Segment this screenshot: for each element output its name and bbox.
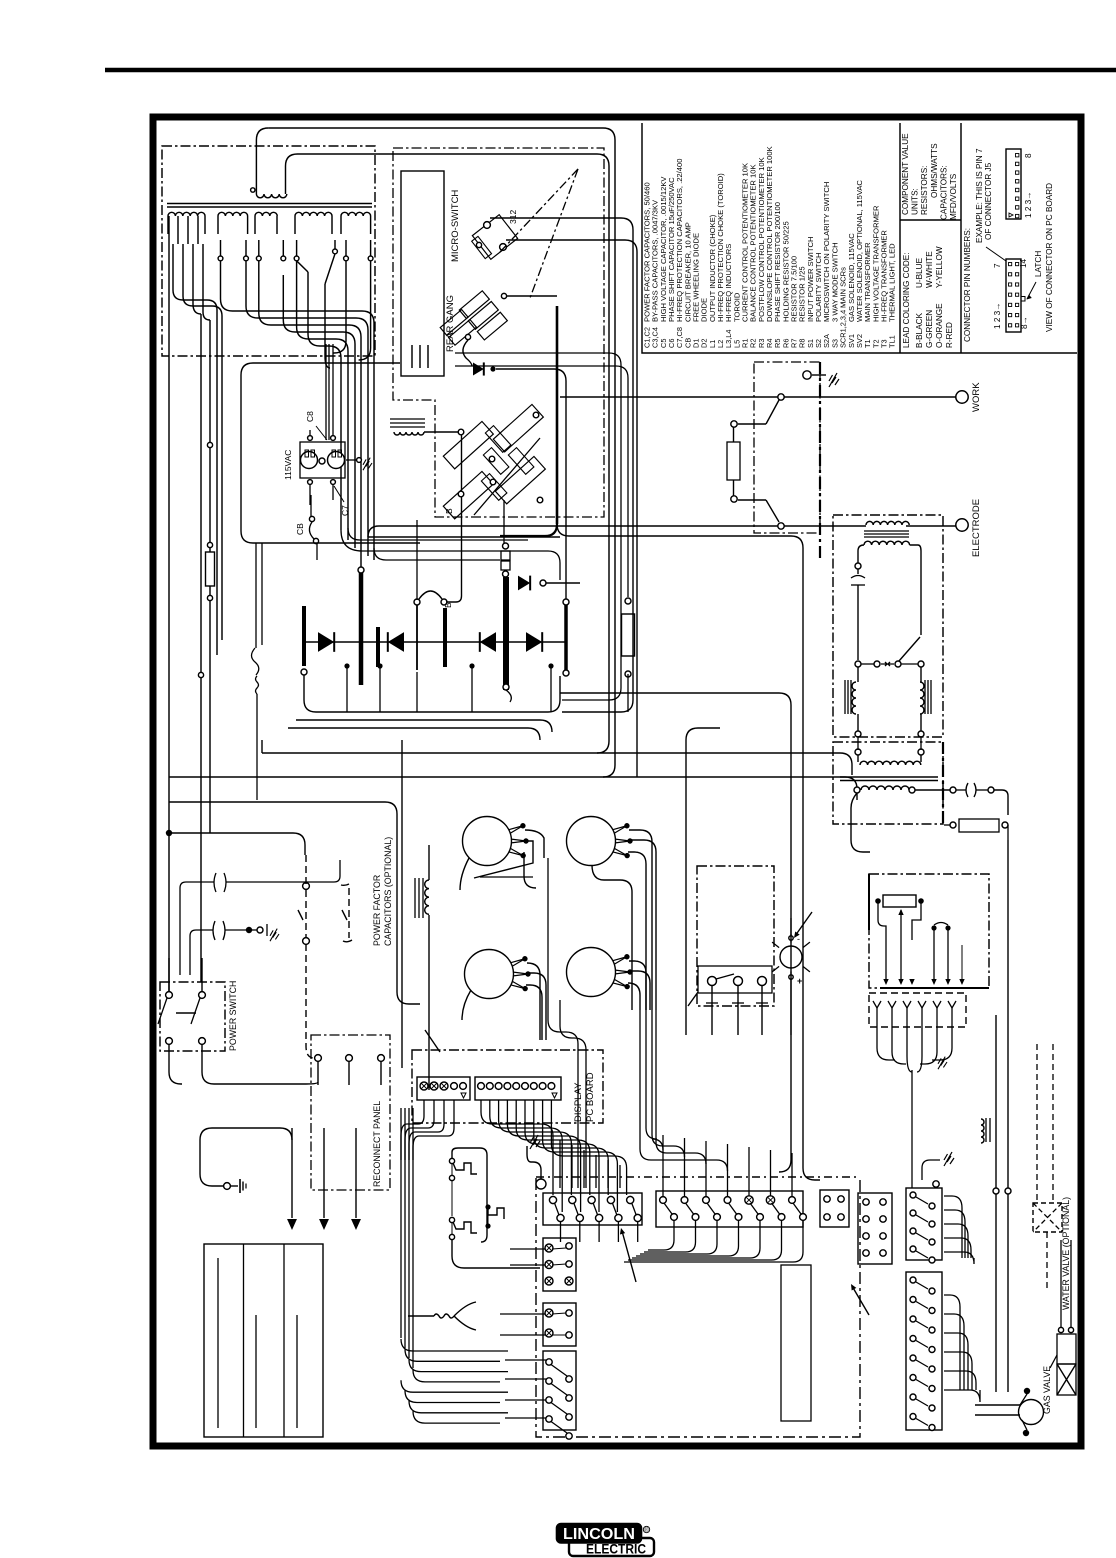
control strip dash-dot box: [697, 866, 774, 1006]
rear gang body inner ticks: [411, 345, 413, 368]
display strip2 wires down to strip A: [481, 1100, 553, 1195]
water valve coil: [985, 1118, 987, 1142]
display strip 2: [475, 1077, 561, 1100]
svg-text:UNITS:: UNITS:: [911, 188, 920, 215]
legend box outline: [642, 123, 1077, 353]
free wheeling diode D1: [503, 580, 508, 585]
arrow to TL1: [795, 912, 812, 936]
svg-text:115VAC: 115VAC: [283, 450, 293, 480]
junction dot main feed: [166, 830, 172, 836]
terminal strip F tall: [906, 1272, 942, 1430]
polarity switch dash-dot box: [754, 362, 820, 533]
display strip 1: [417, 1077, 470, 1100]
wire left edge vertical to power area: [168, 216, 170, 995]
svg-text:CAPACITORS (OPTIONAL): CAPACITORS (OPTIONAL): [383, 837, 393, 946]
capacitor plate 5: [443, 608, 447, 667]
main transformer T1 enclosure dash-dot box: [162, 146, 375, 356]
Lincoln Electric logo white electric box: [569, 1538, 654, 1556]
twisted pair harness: [408, 1315, 434, 1317]
svg-text:14: 14: [1019, 258, 1028, 268]
T3 primary winding: [857, 755, 859, 762]
resistor R7: [206, 552, 215, 586]
thermostat switch symbols: [449, 1158, 454, 1163]
strip A bottom stubs: [560, 1222, 562, 1242]
arrow to strip B: [852, 1286, 869, 1315]
svg-text:O-ORANGE: O-ORANGE: [935, 303, 944, 348]
wire from power switch down-right: [202, 1072, 318, 1084]
svg-text:LATCH: LATCH: [1034, 251, 1043, 277]
receptacle ground symbol: [357, 458, 362, 463]
svg-text:WORK: WORK: [971, 382, 982, 412]
toroid L2 winding bottom: [864, 541, 910, 545]
svg-text:W-WHITE: W-WHITE: [925, 251, 934, 288]
svg-text:8: 8: [1024, 153, 1033, 158]
feeder bundle verticals from micro-switch area: [416, 520, 418, 600]
terminal strip C: [820, 1190, 849, 1227]
gang switch cluster tilted contact rects: [443, 421, 493, 468]
SCR1 main thyristor: [463, 817, 512, 866]
svg-text:+: +: [797, 976, 802, 986]
wire from cluster to T3 via right: [557, 524, 820, 1180]
T3 primary terminals: [855, 749, 861, 755]
diode SCR3 on bus: [480, 632, 496, 652]
pigtail lead left of rectifier: [252, 648, 259, 675]
phase coil L5 small with core: [390, 418, 425, 420]
ground tie with dot: [246, 927, 252, 933]
svg-text:EXAMPLE: THIS IS PIN 7: EXAMPLE: THIS IS PIN 7: [975, 148, 984, 243]
Lincoln Electric logo black box: [557, 1524, 641, 1543]
capacitor plate 3: [376, 627, 380, 667]
svg-text:U-BLUE: U-BLUE: [915, 257, 924, 288]
capacitor C5: [855, 563, 861, 569]
display pc board dash-dot box: [412, 1050, 603, 1123]
svg-text:GAS VALVE: GAS VALVE: [1042, 1366, 1052, 1414]
svg-text:B-BLACK: B-BLACK: [915, 312, 924, 348]
HF inductor L4: [924, 680, 926, 714]
control potentiometer dash-dot box: [869, 874, 989, 988]
SCR1 wires right: [525, 830, 544, 858]
transformer T1 core lines: [167, 203, 372, 205]
svg-text:MFD/VOLTS: MFD/VOLTS: [949, 173, 958, 220]
rectifier lower collector wires: [304, 675, 560, 712]
thin plate 4: [416, 605, 418, 670]
wire big loop to reconnect: [169, 802, 420, 1004]
svg-text:LINCOLN: LINCOLN: [563, 1526, 635, 1543]
svg-text:CB: CB: [295, 523, 305, 535]
potentiometer legs: [878, 901, 886, 980]
SCR4 main thyristor: [567, 948, 616, 997]
svg-text:POWER FACTOR: POWER FACTOR: [372, 875, 382, 946]
bundle from display to strip B: [662, 1135, 664, 1196]
svg-text:OF CONNECTOR J5: OF CONNECTOR J5: [984, 162, 993, 240]
svg-text:MICRO-SWITCH: MICRO-SWITCH: [450, 190, 461, 262]
wiper arrow: [900, 910, 902, 982]
gang cluster heavy wire down: [556, 306, 559, 524]
HF protection dash-dot box: [833, 515, 943, 737]
terminal strip A: [543, 1193, 642, 1225]
arrow into display box: [425, 1030, 440, 1052]
logo registered mark: [643, 1526, 649, 1532]
leader line from EXAMPLE text to pin 7: [986, 247, 1006, 261]
reconnect panel dash-dot box: [311, 1035, 390, 1190]
svg-text:LEAD COLORING CODE:: LEAD COLORING CODE:: [902, 252, 911, 348]
HF inductor L3: [844, 680, 846, 714]
svg-text:VIEW OF CONNECTOR ON PC B: VIEW OF CONNECTOR ON PC BOARD: [1045, 183, 1054, 332]
spark gap: [855, 661, 861, 667]
svg-text:B: B: [444, 508, 454, 514]
capacitor plate tall 2: [359, 573, 364, 685]
svg-text:1 2 3→: 1 2 3→: [1024, 192, 1033, 218]
diode SCR2 on bus: [388, 632, 404, 652]
SCR2 main thyristor: [567, 817, 616, 866]
wire from SCR1 down-left: [460, 858, 469, 890]
connector harness converge: [877, 1027, 895, 1060]
work terminal: [956, 391, 968, 403]
transformer tap wires descending staircase: [221, 261, 375, 560]
transformer tap terminals row: [218, 256, 223, 261]
circuit breaker CB: [309, 516, 314, 521]
blank vertical rect: [781, 1265, 811, 1421]
capacitor plate 7: [564, 605, 568, 670]
svg-text:THERMAL LIGHT, LED: THERMAL LIGHT, LED: [888, 243, 897, 322]
wire top bus 2 to right side: [298, 154, 610, 753]
receptacle wires: [309, 430, 311, 436]
svg-text:POWER SWITCH: POWER SWITCH: [228, 981, 238, 1051]
thermal light TL1: [780, 946, 802, 968]
svg-text:B: B: [443, 602, 453, 608]
wire T3 secondary to cap: [915, 789, 950, 791]
transformer T1 left lead bundle staircase: [173, 244, 217, 655]
micro-switch S2A tilted body: [472, 215, 517, 260]
harness vertical bundle: [400, 1108, 402, 1338]
toroid L2 core lines: [864, 530, 909, 532]
tap switch blade 2: [333, 249, 338, 254]
SCR3 wires right: [527, 963, 540, 1040]
svg-text:REAR GANG: REAR GANG: [445, 295, 456, 352]
bottom dash-dot boundary: [536, 1178, 860, 1437]
wires from rear gang area to under legend and down: [455, 353, 621, 700]
svg-text:DISPLAY: DISPLAY: [573, 1082, 584, 1122]
power factor capacitor C2: [213, 921, 215, 940]
long vertical feeder x402: [401, 740, 403, 1068]
electrode lead wire: [368, 526, 866, 537]
phase shift resistor R5: [622, 614, 635, 656]
SCR gate leads with dots: [509, 826, 523, 830]
micro-switch area dash-dot boundary: [393, 148, 604, 517]
control terminal strip: [698, 966, 772, 993]
wire primary left leg up to top bus: [256, 128, 268, 194]
T3 secondary winding: [861, 786, 909, 790]
svg-text:RESISTORS:: RESISTORS:: [920, 166, 929, 215]
transformer T1 secondary winding legs: [167, 216, 169, 234]
diode SCR4 on bus: [526, 632, 542, 652]
dash-dot diagonal to micro-switch: [500, 169, 578, 252]
work lead wire: [560, 396, 956, 398]
terminal strip E: [906, 1188, 942, 1260]
input power arrows: [291, 1128, 293, 1218]
T3 core lines: [840, 776, 938, 778]
polarity blade lower: [731, 496, 737, 502]
tap switch blade 1: [297, 261, 308, 272]
center vertical bundle to strips: [559, 1140, 561, 1188]
gas valve body with X: [1057, 1334, 1076, 1364]
wire primary right leg up to second bus: [286, 154, 298, 194]
transformer T1 primary coil: [256, 194, 286, 198]
terminal strip D vertical: [858, 1193, 892, 1264]
power switch S1 contacts: [166, 992, 173, 999]
connector J5 single row header: [1006, 149, 1021, 219]
wire third left vertical with resistor R7: [209, 320, 211, 552]
wire plate6 feeder up: [503, 500, 505, 543]
potentiometer R1 body: [883, 895, 916, 907]
water valve symbol dashed: [1033, 1203, 1062, 1232]
connector dual row header: [1006, 259, 1021, 332]
rear gang S2 tilted contact blocks: [459, 291, 507, 340]
rear gang body rectangle: [401, 171, 444, 376]
wire from rear gang right: [506, 295, 557, 297]
toroid L5 vertical coil with core: [414, 878, 416, 918]
holding resistor R6: [727, 442, 740, 480]
polarity blade upper: [766, 400, 779, 424]
schematic outer border: [153, 117, 1081, 1446]
svg-text:WATER VALVE (OPTIONAL): WATER VALVE (OPTIONAL): [1061, 1197, 1071, 1310]
SCR4 wires right: [629, 961, 646, 1010]
wire loop above receptacles: [241, 363, 420, 543]
connector latch tab: [1021, 297, 1025, 302]
SCR3 main thyristor: [465, 950, 514, 999]
svg-text:G-GREEN: G-GREEN: [925, 310, 934, 348]
input power cable box: [204, 1244, 323, 1437]
receptacle 115VAC duplex outlet: [300, 442, 345, 478]
leader line from LATCH text to latch tab: [1027, 282, 1036, 299]
pc board connector dashed box: [869, 993, 966, 1027]
switch contacts in pot box: [931, 925, 936, 930]
thermostat harness loop: [452, 1148, 487, 1242]
power switch S1 dash-dot box: [160, 982, 225, 1051]
main thick capacitor plate 6: [503, 577, 509, 690]
wire from junction to optional cap switch: [169, 833, 305, 855]
strip B feeder curves from SCR bundle: [646, 1010, 663, 1150]
diode D2: [473, 362, 484, 375]
wire hop arc between plates: [419, 591, 442, 599]
pot box down arrows: [883, 979, 888, 985]
diode SCR1 on bus: [318, 632, 334, 652]
svg-text:C7: C7: [340, 505, 350, 516]
svg-text:C8: C8: [305, 411, 315, 422]
gang cluster terminals: [458, 429, 464, 435]
svg-text:8→: 8→: [1020, 316, 1029, 329]
legend divider columns: [899, 123, 901, 353]
display strip1 wires down: [401, 1100, 424, 1160]
misc long verticals center: [685, 740, 687, 1035]
transformer T1 secondary winding humps: [168, 212, 205, 216]
upper collector horizontals joining bundle: [341, 530, 560, 580]
water valve dashed wires: [1036, 1044, 1038, 1200]
reconnect panel terminals: [315, 1055, 322, 1062]
svg-text:PC BOARD: PC BOARD: [585, 1072, 596, 1122]
wire bus y693 to right down: [560, 693, 791, 1172]
svg-text:RECONNECT PANEL: RECONNECT PANEL: [372, 1101, 382, 1187]
capacitor plate 1: [302, 606, 306, 666]
wire second left vertical: [200, 314, 202, 982]
dash-dot diagonal through cluster: [474, 438, 540, 515]
svg-text:COMPONENT VALUE: COMPONENT VALUE: [901, 133, 910, 215]
input cable conductor lines: [217, 1258, 219, 1428]
capacitor C3: [966, 783, 968, 797]
svg-text:312: 312: [508, 210, 518, 224]
harness lines to strip G: [401, 1339, 508, 1351]
wire loop upper power area: [169, 777, 857, 800]
svg-text:TL1: TL1: [888, 335, 897, 348]
svg-text:CONNECTOR PIN NUMBERS:: CONNECTOR PIN NUMBERS:: [963, 228, 972, 342]
resistor R8 horizontal: [959, 819, 999, 832]
terminal strip G left: [543, 1351, 576, 1430]
strip lead wires with cross ticks: [711, 986, 713, 1035]
page top rule: [105, 68, 1116, 73]
ground at polarity top: [803, 371, 811, 379]
T3 transformer dash-dot box: [833, 742, 943, 824]
grounds bottom area: [536, 1179, 546, 1189]
terminal block above plate 6: [501, 551, 510, 560]
svg-text:R-RED: R-RED: [945, 322, 954, 348]
harness curls below strip F: [944, 1295, 960, 1390]
SCR2 wires right: [629, 830, 652, 1010]
svg-text:OHMS/WATTS: OHMS/WATTS: [930, 143, 939, 198]
svg-text:®: ®: [644, 1527, 649, 1534]
right long verticals: [995, 1015, 997, 1392]
small ground near pot box: [938, 1057, 947, 1070]
svg-text:ELECTRODE: ELECTRODE: [971, 499, 982, 557]
optional switch poles dashed: [303, 883, 310, 890]
terminal strip B: [656, 1191, 803, 1227]
harness curls right of strip E: [944, 1196, 962, 1258]
toroid L2 winding top: [866, 521, 909, 525]
power factor capacitor C1: [214, 873, 216, 892]
strip B bottom wire curls: [648, 1221, 674, 1250]
input ground lug: [224, 1183, 231, 1190]
gas valve solenoid: [1019, 1400, 1044, 1425]
svg-text:Y-YELLOW: Y-YELLOW: [935, 246, 944, 288]
svg-text:7: 7: [993, 263, 1002, 268]
connector pin forks: [873, 1001, 881, 1008]
wire top bus 1 to right side: [268, 128, 615, 777]
terminal strip I left top: [543, 1303, 576, 1346]
extra SCR bundle wires down: [548, 858, 578, 1188]
terminal circles on left verticals: [207, 442, 212, 447]
micro-switch wire 312: [490, 218, 633, 712]
rectifier bus horizontal: [304, 641, 566, 643]
electrode terminal: [956, 519, 968, 531]
svg-text:CAPACITORS:: CAPACITORS:: [939, 165, 948, 220]
arrow to strip A: [622, 1231, 636, 1282]
svg-text:1 2 3→: 1 2 3→: [993, 303, 1002, 329]
terminal strip H left upper: [543, 1238, 576, 1291]
